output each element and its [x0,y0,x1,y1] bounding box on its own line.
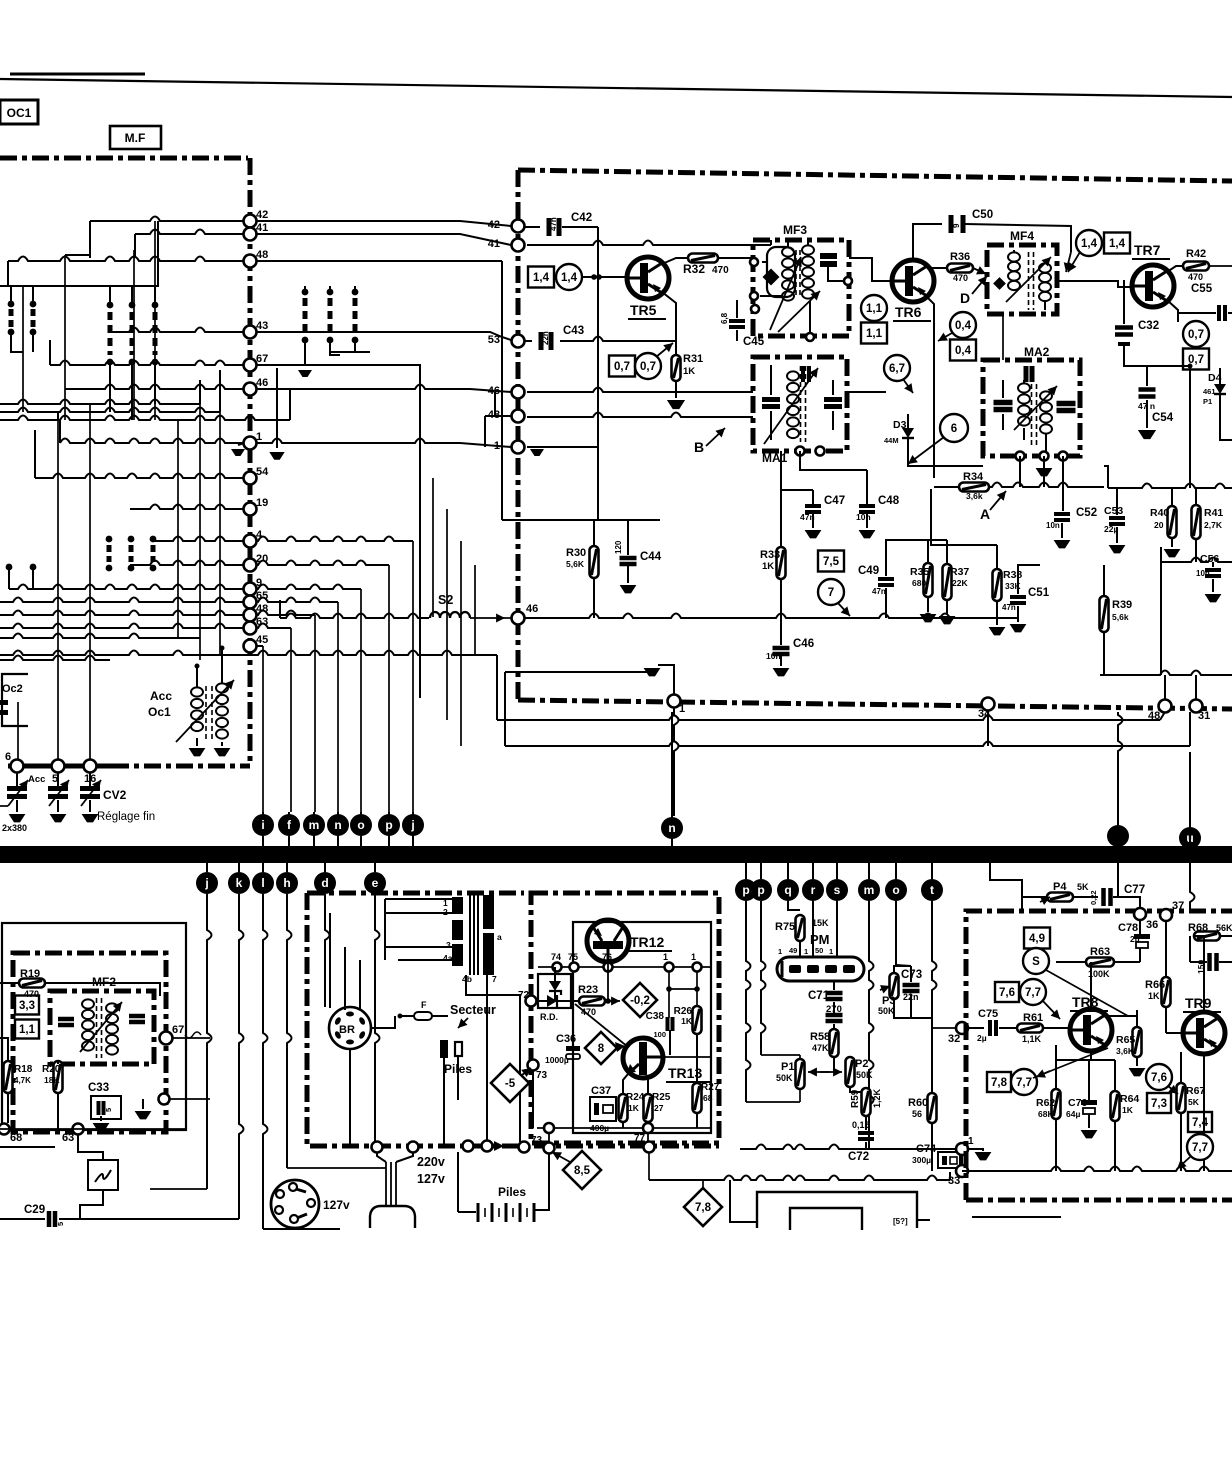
circle 1,1 [861,295,887,321]
svg-text:1: 1 [663,952,668,962]
resistor R65 [1133,1027,1142,1057]
svg-text:C75: C75 [978,1008,998,1020]
wire arrows [808,1071,830,1073]
wire [110,328,244,333]
wire [256,439,460,444]
svg-text:n: n [668,821,675,835]
resistor R18 [4,1061,13,1093]
svg-text:C48: C48 [878,495,900,507]
wire [486,975,488,1141]
node 16 [84,760,97,773]
wire [895,901,897,965]
wire pointer [908,437,944,464]
node 42 [512,220,525,233]
svg-text:0,7: 0,7 [640,361,656,373]
svg-text:h: h [283,876,290,890]
wire [1018,565,1040,580]
ground [975,1152,992,1160]
diamond -5 [491,1064,529,1102]
svg-text:Oc1: Oc1 [148,705,171,719]
switch S2 contact [107,302,114,309]
wire [1167,266,1183,272]
resistor P4 [1047,893,1073,902]
wire [384,899,386,960]
wire [607,962,609,1001]
wire diag [1046,970,1128,1016]
svg-text:120: 120 [614,540,623,554]
resistor R60 [928,1093,937,1123]
svg-text:C38: C38 [646,1011,665,1022]
wire [1104,466,1108,488]
wire [0,408,220,413]
wire [537,1127,711,1129]
svg-text:7: 7 [828,587,834,599]
svg-text:7,8: 7,8 [991,1077,1008,1089]
transformer MF4 box [987,245,1057,314]
svg-text:MF3: MF3 [783,223,807,237]
node 46 [244,383,257,396]
svg-text:43: 43 [256,320,268,332]
wire [325,894,330,1007]
svg-text:P2: P2 [855,1058,868,1070]
svg-text:32: 32 [948,1033,960,1045]
wire [501,261,503,520]
svg-text:77: 77 [634,1133,646,1144]
svg-text:10n: 10n [1196,569,1210,578]
wire [502,519,660,521]
box 0,7 [609,356,635,377]
wire [1189,712,1191,746]
svg-text:TR6: TR6 [895,304,922,320]
node 74 [553,963,562,972]
node 77 [643,1123,653,1133]
wire [330,351,370,353]
switch S2 contact [129,302,136,309]
wire [1056,961,1086,963]
wire [505,671,650,673]
svg-text:j: j [410,818,414,832]
wire [1124,360,1147,366]
transistor TR13 [623,1038,663,1078]
wire [199,380,201,404]
node l [262,863,264,872]
svg-text:MF2: MF2 [92,975,116,989]
svg-text:Secteur: Secteur [450,1003,496,1017]
svg-text:220v: 220v [417,1155,445,1169]
svg-text:R41: R41 [1204,507,1223,519]
wire [412,541,414,812]
box power dash left [307,893,719,1146]
wire [130,561,244,566]
svg-text:R68: R68 [1188,922,1208,934]
wire [911,1017,932,1019]
svg-text:R31: R31 [683,353,703,365]
svg-text:-0,2: -0,2 [630,995,650,1007]
wire [153,537,244,542]
svg-text:4,9: 4,9 [1029,933,1045,945]
wire [1189,752,1191,827]
svg-text:18K: 18K [44,1075,60,1085]
svg-text:0,7: 0,7 [1188,329,1204,341]
svg-text:74: 74 [551,952,561,962]
svg-text:TR12: TR12 [630,934,664,950]
wire [1114,961,1140,963]
wire MF left bus [516,170,521,700]
wire [1103,565,1105,596]
ground [1129,1068,1146,1076]
node 43 [244,326,257,339]
wire [1002,380,1004,398]
wire [8,257,244,262]
svg-text:a: a [497,932,502,942]
wire [886,540,947,565]
wire [647,1133,649,1142]
wire [908,452,983,466]
wire [485,415,511,417]
svg-text:41: 41 [256,222,268,234]
svg-text:56K: 56K [1216,923,1232,933]
node 77 [644,1142,655,1153]
svg-text:TR5: TR5 [630,302,657,318]
wire [730,1180,757,1222]
wire [917,1219,930,1221]
wire [0,400,200,405]
resistor P2 [846,1057,855,1087]
wire [375,894,380,1141]
box Oc2 [2,674,28,726]
switch S1a [8,301,15,308]
svg-text:C50: C50 [972,209,993,221]
svg-text:50K: 50K [776,1073,793,1083]
svg-text:10n: 10n [856,512,871,522]
wire [17,702,19,766]
box 1,4 [528,267,554,288]
svg-text:R32: R32 [683,262,705,276]
wire [1190,863,1195,911]
node m [868,863,870,879]
node tap [1016,452,1025,461]
box 7,6 [995,982,1019,1002]
wire [740,1145,958,1150]
node 53 [512,335,525,348]
node 73 [544,1123,554,1133]
svg-text:r: r [811,883,816,897]
svg-text:C72: C72 [848,1151,869,1163]
svg-text:680: 680 [912,578,926,588]
node h [286,863,288,872]
wire [360,589,362,812]
node r [812,863,814,879]
wire [968,1027,984,1029]
wire [170,1098,210,1100]
resistor R32 [688,254,718,263]
resistor R38 [993,569,1002,601]
svg-text:127v: 127v [417,1172,445,1186]
svg-text:-5: -5 [505,1078,516,1090]
wire [262,646,264,812]
node o [360,812,362,846]
resistor R59 [862,1088,871,1116]
node i [1107,825,1129,847]
svg-text:67: 67 [172,1024,184,1036]
wire [256,234,511,245]
wire [1189,366,1191,488]
capacitor C51 [1010,595,1026,599]
svg-text:1K: 1K [683,366,695,377]
connector 127v DIN [271,1180,319,1228]
svg-text:47n: 47n [549,217,558,231]
wire [65,385,244,390]
node 33 [956,1165,968,1177]
svg-text:C32: C32 [1138,320,1159,332]
wire [89,221,91,258]
svg-text:127v: 127v [323,1198,350,1212]
svg-text:5,6K: 5,6K [566,559,585,569]
wire [466,975,520,1142]
svg-text:p: p [757,883,764,897]
capacitor C77 [1101,888,1106,906]
svg-text:64µ: 64µ [1066,1109,1080,1119]
svg-text:1,2K: 1,2K [872,1088,882,1108]
wire [398,946,452,948]
wire [696,1034,698,1057]
resistor R62 [1052,1089,1061,1119]
wire [999,1027,1016,1029]
wire [90,217,244,222]
capacitor C32 [1115,325,1133,330]
box bottom outer [757,1192,917,1228]
wire [64,255,66,420]
wire [1105,1015,1137,1017]
node [408,1142,419,1153]
node 36 [1134,908,1146,920]
wire [133,250,135,420]
node 20 [244,559,257,572]
wire [1117,863,1119,897]
svg-text:50K: 50K [878,1006,895,1016]
wire [1002,314,1004,360]
node [519,1142,530,1153]
diamond 7,8 [684,1188,722,1226]
node 32 [956,1022,968,1034]
transformer mains core [469,893,471,975]
capacitor C71 [826,991,843,996]
svg-text:15K: 15K [812,918,829,928]
svg-text:C52: C52 [1076,507,1097,519]
svg-text:R18: R18 [14,1064,33,1075]
node 1 [956,1143,968,1155]
svg-text:20: 20 [1154,520,1164,530]
wire [1203,1054,1205,1171]
node 1 [244,437,257,450]
wire [965,224,1071,252]
box TR12 inner [573,922,711,1133]
switch S2 contact [152,302,159,309]
svg-text:470: 470 [953,273,968,283]
connector PM [777,957,864,981]
ground [644,668,661,676]
svg-text:C71: C71 [808,990,830,1002]
resistor R63 [1086,958,1114,967]
wire [287,1167,386,1169]
resistor R67 [1177,1083,1186,1113]
wire [932,901,937,1028]
wire [0,805,8,807]
resistor R35 [924,563,933,597]
svg-text:P4: P4 [1053,881,1067,893]
wire [1161,558,1232,563]
svg-text:TR8: TR8 [1072,994,1099,1010]
box RD [538,974,571,1008]
node e [374,863,376,872]
box 7,3 [1147,1093,1171,1113]
wire [276,368,278,448]
node 46 [512,386,525,399]
box thermistor [88,1160,118,1190]
wire [344,947,346,1010]
node 1 [693,963,702,972]
wire [1164,675,1166,699]
node 67 [244,359,257,372]
wire [256,645,263,647]
wire pointer [1177,1157,1190,1169]
wire [0,416,290,421]
wire [1118,712,1123,825]
wire [1019,456,1021,487]
wire [1160,547,1162,562]
ground [135,1111,152,1119]
wire [527,241,771,246]
svg-text:m: m [864,883,875,897]
switch contact [6,564,13,571]
svg-text:C45: C45 [743,336,765,348]
wire [770,412,772,440]
node m [313,812,315,846]
node [372,1142,383,1153]
node u [1179,827,1201,849]
wire [304,343,306,365]
circle 7,7 [1011,1069,1037,1095]
node 41 [244,228,257,241]
wire [1209,265,1232,267]
svg-text:3,6k: 3,6k [966,491,983,501]
wire pointer [656,343,673,357]
wire [371,1016,395,1028]
switch contact [352,289,359,296]
box power dash [307,891,524,896]
wire [7,261,9,286]
svg-text:s: s [834,883,841,897]
wire [49,340,51,365]
wire [1062,456,1064,511]
wire [385,946,398,948]
wire [812,901,814,957]
circle 0,4 [950,312,976,338]
resistor R19 [19,979,45,988]
box 1,1 [861,323,887,344]
svg-text:27: 27 [654,1103,664,1113]
node 72 [526,996,537,1007]
svg-text:73: 73 [531,1135,543,1146]
svg-text:10n: 10n [1046,521,1060,530]
node q [787,863,789,879]
wire [256,365,420,698]
resistor R24 [619,1094,628,1122]
svg-text:d: d [321,876,328,890]
wire pointer [1066,252,1071,272]
svg-text:P1: P1 [1203,397,1212,406]
wire [0,79,1232,97]
ground [667,400,685,409]
svg-text:6: 6 [5,751,11,763]
svg-text:C43: C43 [563,325,584,337]
svg-text:R.D.: R.D. [540,1012,558,1022]
resistor R31 [675,341,677,356]
svg-text:470: 470 [24,989,39,999]
wire tuning arrow [176,680,234,742]
svg-text:1,1K: 1,1K [1022,1034,1042,1044]
svg-text:R25: R25 [652,1092,671,1103]
node [463,1141,474,1152]
wire pointer [838,603,850,616]
wire [662,258,689,264]
capacitor Oc2 [0,700,8,705]
resistor P3 [890,973,899,999]
wire [80,1190,103,1220]
node 68 [0,1124,10,1135]
wire [972,1216,1061,1218]
svg-text:R67: R67 [1186,1085,1205,1097]
wire [1189,936,1191,962]
svg-text:2x380: 2x380 [2,823,27,833]
svg-text:n: n [334,818,341,832]
svg-text:1,1: 1,1 [866,328,883,340]
svg-text:OC1: OC1 [7,106,32,120]
svg-text:k: k [236,876,243,890]
wire [109,286,111,302]
switch contact [327,289,334,296]
wire [314,615,316,812]
wire [154,221,156,420]
wire [8,567,10,589]
wire [961,1155,963,1165]
box output stage [2,923,186,1130]
node k [238,863,240,872]
svg-text:A: A [980,506,990,522]
capacitor C50 [913,224,942,260]
wire [207,894,212,1189]
svg-text:5K: 5K [1188,1097,1200,1107]
resistor R23 [579,997,605,1006]
wire [582,276,627,278]
svg-text:o: o [892,883,899,897]
wire [548,1133,550,1143]
wire [505,742,1190,747]
capacitor C52 [1054,512,1070,516]
svg-text:CV2: CV2 [103,788,127,802]
box 3,3 [15,996,39,1015]
svg-text:9: 9 [952,223,961,228]
wire [746,901,751,1102]
box 7,5 [818,551,844,572]
circle 7,7 [1187,1134,1213,1160]
svg-text:TR7: TR7 [1134,242,1161,258]
wire [527,446,598,448]
svg-text:1: 1 [256,431,262,443]
box 0,7 [1183,349,1209,370]
wire [718,257,753,259]
box MF2 outer dash [13,953,166,1132]
